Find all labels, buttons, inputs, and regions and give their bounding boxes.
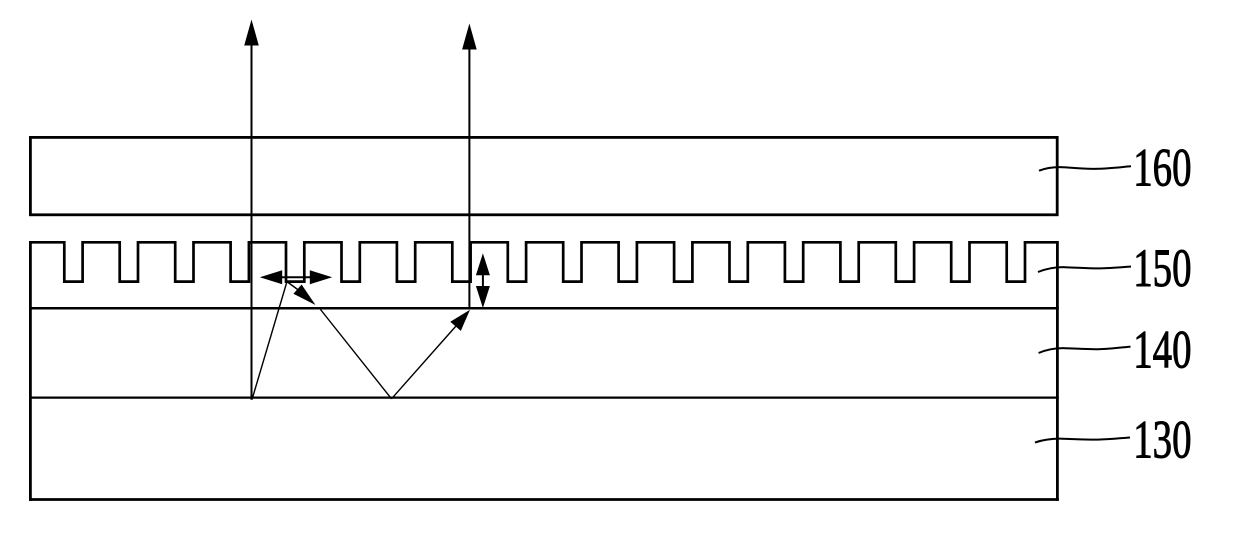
svg-text:160: 160	[1133, 138, 1191, 198]
light ray from point A up to grating	[252, 282, 287, 400]
leader line for label 140	[1039, 347, 1131, 353]
svg-text:130: 130	[1133, 410, 1191, 470]
svg-text:150: 150	[1133, 239, 1191, 299]
vertical double-headed arrow (grating depth)	[476, 253, 490, 308]
light ray V right segment with arrowhead	[392, 310, 471, 399]
light ray V left segment	[321, 310, 392, 399]
interface line between layer 150 and 140	[29, 307, 1059, 310]
leader line for label 150	[1038, 267, 1131, 273]
svg-text:140: 140	[1133, 320, 1191, 380]
right edge of layers 150/140/130	[1056, 241, 1059, 501]
layer 160 rectangle	[30, 137, 1057, 214]
bottom edge of layer 130	[29, 498, 1059, 501]
horizontal double-headed arrow (grating period)	[260, 270, 332, 284]
emitted light arrow 1 (left, x=251.5)	[244, 20, 259, 400]
emitted light arrow 2 (right, x=469.4)	[462, 24, 477, 309]
interface line between layer 140 and 130	[29, 396, 1059, 398]
left edge of layers 150/140/130	[29, 241, 32, 501]
diffracted short arrow at grating	[288, 282, 316, 305]
leader line for label 130	[1035, 438, 1130, 443]
leader line for label 160	[1039, 166, 1131, 170]
layer 150 grating top profile	[30, 242, 1057, 281]
